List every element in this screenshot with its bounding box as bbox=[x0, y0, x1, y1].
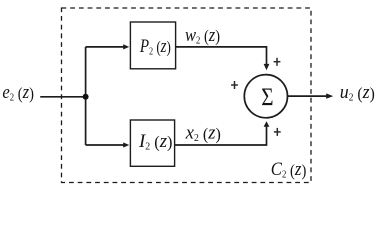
node junction dot bbox=[83, 94, 89, 100]
wire: branch to I2 bbox=[86, 144, 124, 146]
arrowhead into summer top bbox=[264, 64, 270, 70]
wire: branch to P2 bbox=[86, 46, 124, 48]
plus sign left of summer bbox=[231, 81, 238, 89]
wire: P2 output to summer (right then down) bbox=[176, 47, 267, 64]
svg-text:Σ: Σ bbox=[261, 82, 273, 111]
block P2(z) bbox=[130, 22, 175, 69]
svg-text:u2 (z): u2 (z) bbox=[340, 82, 375, 104]
arrowhead output bbox=[326, 93, 333, 98]
svg-text:I2 (z): I2 (z) bbox=[138, 131, 172, 153]
svg-text:x2 (z): x2 (z) bbox=[185, 123, 221, 145]
svg-text:C2 (z): C2 (z) bbox=[271, 159, 307, 181]
arrowhead into P2 bbox=[123, 44, 129, 49]
svg-text:P2 (z): P2 (z) bbox=[139, 36, 171, 58]
arrowhead into summer bottom bbox=[264, 121, 270, 127]
svg-text:w2 (z): w2 (z) bbox=[185, 25, 220, 47]
wire: I2 output to summer (right then up) bbox=[175, 126, 267, 145]
plus sign top input bbox=[274, 58, 281, 66]
wire: input from e2(z) to node bbox=[40, 96, 85, 98]
arrowhead into I2 bbox=[123, 142, 129, 147]
plus sign bottom input bbox=[274, 128, 281, 136]
dashed boundary box C2(z) bbox=[62, 8, 312, 183]
wire: summer output bbox=[287, 95, 327, 97]
wire: vertical branch through node bbox=[85, 47, 87, 145]
svg-text:e2 (z): e2 (z) bbox=[2, 82, 34, 104]
summer circle U1 bbox=[244, 75, 287, 118]
block I2(z) bbox=[130, 120, 174, 166]
